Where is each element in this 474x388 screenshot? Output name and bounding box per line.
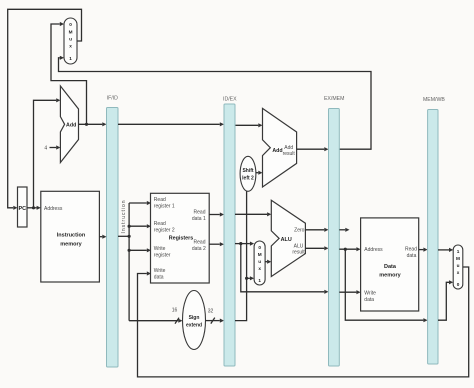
svg-text:Instruction: Instruction [121, 199, 127, 233]
instruction memory [41, 191, 100, 282]
svg-text:extend: extend [186, 323, 202, 329]
node: bus junction wr [128, 249, 131, 252]
ALU [271, 200, 305, 276]
svg-text:1: 1 [457, 249, 460, 254]
svg-text:Add: Add [272, 148, 282, 154]
wire: read data 2 from ID/EX to ALU mux input 0 [235, 242, 254, 246]
wire: sign extend from ID/EX up to shift left 2 [235, 191, 247, 320]
svg-text:memory: memory [379, 273, 401, 279]
wire: instruction memory output to IF/ID [99, 235, 106, 239]
svg-text:1: 1 [258, 278, 261, 283]
svg-text:result: result [283, 151, 296, 157]
wire: ALU result to WB mux input 0 [438, 280, 453, 320]
wire: read data to WB mux input 1 [438, 248, 453, 252]
wire: read data 2 to ID/EX [209, 242, 224, 246]
svg-text:memory: memory [60, 242, 82, 248]
svg-text:data: data [364, 297, 374, 303]
svg-text:result: result [292, 250, 305, 256]
wire: ALU zero to EX/MEM [305, 228, 328, 232]
wire: write-back to registers write data [138, 267, 469, 377]
node: instruction label [121, 199, 127, 233]
svg-text:EX/MEM: EX/MEM [324, 96, 344, 102]
svg-text:Add: Add [66, 122, 76, 128]
wire: read data to MEM/WB [419, 248, 428, 252]
svg-text:x: x [258, 266, 261, 271]
wire: PC+4 from IF/ID to ID/EX [118, 122, 224, 126]
svg-text:4: 4 [44, 146, 47, 152]
node: bus junction rr2 [128, 225, 131, 228]
svg-text:ALU: ALU [281, 237, 292, 243]
svg-text:Read: Read [194, 239, 206, 245]
mux M1 (PCSrc mux, top-left) [64, 18, 77, 64]
adder Add2 (branch target) [263, 108, 297, 187]
svg-text:data 1: data 1 [192, 216, 206, 222]
svg-text:16: 16 [172, 308, 178, 314]
data memory [361, 218, 419, 311]
svg-text:ALU: ALU [294, 243, 304, 249]
wire: ALU result to EX/MEM [305, 246, 328, 250]
svg-text:Address: Address [364, 247, 383, 253]
node: ALU result split [344, 248, 347, 251]
mux M3 (MemtoReg) [453, 245, 463, 289]
wire: read data 2 down to write data path [241, 244, 329, 294]
wire: PC+4 from ID/EX to branch adder [235, 123, 263, 127]
wire: mux output to PC (top-left feedback) [8, 9, 82, 210]
wire: ALU result bypass down to MEM/WB [345, 249, 427, 322]
svg-text:u: u [258, 259, 261, 264]
wire: branch target into mux input 1 [59, 56, 372, 150]
svg-text:Read: Read [154, 197, 166, 203]
mux M2 (ALUSrc) [254, 241, 265, 285]
wire: bus to write register [129, 248, 151, 252]
svg-text:x: x [457, 270, 460, 275]
svg-text:0: 0 [258, 245, 261, 250]
constant 4 input [44, 145, 60, 151]
svg-text:Write: Write [154, 246, 166, 252]
wire: read data 1 to ID/EX [209, 212, 224, 216]
svg-text:data 2: data 2 [192, 246, 206, 252]
sign extend unit [183, 291, 206, 350]
svg-text:1: 1 [69, 56, 72, 61]
svg-text:Read: Read [154, 221, 166, 227]
wire: bus to read register 2 [129, 224, 151, 228]
wire: write data into data memory [339, 290, 360, 294]
svg-text:register 1: register 1 [154, 203, 175, 209]
svg-text:Sign: Sign [189, 315, 200, 321]
svg-text:u: u [457, 263, 460, 268]
svg-text:M: M [456, 256, 460, 261]
svg-text:x: x [69, 44, 72, 49]
node: PC output junction [32, 206, 35, 209]
wire: Add1 output to IF/ID [79, 122, 107, 126]
wire: shift left 2 to branch adder [256, 171, 263, 175]
pipeline register MEM/WB [423, 97, 445, 364]
registers file [151, 193, 210, 283]
node: read data 2 split [239, 242, 242, 245]
PC register [18, 187, 28, 227]
svg-text:register: register [154, 252, 171, 258]
pipeline register EX/MEM [324, 96, 344, 366]
svg-text:left 2: left 2 [242, 176, 254, 182]
svg-text:Read: Read [405, 246, 417, 252]
wire: IF/ID to instruction bus [118, 235, 131, 238]
wire: ALUSrc mux output to ALU [265, 260, 271, 264]
svg-text:Read: Read [194, 209, 206, 215]
svg-text:Data: Data [384, 264, 397, 270]
svg-text:32: 32 [208, 309, 214, 315]
wire: PC to instruction memory address [27, 206, 41, 210]
wire: bus to read register 1 [129, 201, 151, 205]
wire: sign extend to ALU mux input 1 [247, 276, 255, 280]
wire: read data 1 from ID/EX to ALU [235, 212, 271, 216]
svg-text:ID/EX: ID/EX [223, 97, 237, 103]
svg-text:Zero: Zero [294, 227, 305, 233]
svg-text:data: data [407, 253, 417, 259]
svg-text:Write: Write [154, 268, 166, 274]
wire: ALU result to data memory address [339, 247, 360, 251]
adder Add1 (PC+4) [60, 86, 78, 163]
wire: instruction bus vertical [128, 203, 130, 321]
svg-text:u: u [69, 37, 72, 42]
node: PC+4 junction [85, 123, 88, 126]
svg-text:MEM/WB: MEM/WB [423, 97, 445, 103]
pipeline register IF/ID [107, 96, 119, 368]
svg-text:IF/ID: IF/ID [107, 96, 118, 102]
svg-text:Write: Write [364, 290, 376, 296]
svg-text:Instruction: Instruction [57, 233, 86, 239]
wire: sign extend output to ID/EX (32 bits) [206, 309, 224, 324]
shift left 2 unit [240, 156, 256, 191]
svg-text:M: M [69, 30, 73, 35]
svg-text:register 2: register 2 [154, 228, 175, 234]
svg-text:0: 0 [457, 282, 460, 287]
svg-text:Address: Address [44, 206, 63, 212]
svg-text:Registers: Registers [169, 236, 194, 242]
svg-text:0: 0 [69, 22, 72, 27]
wire: PC up to Add input [34, 98, 61, 208]
wire: PC+4 into mux input 0 [51, 22, 87, 124]
node: sign extend split [245, 277, 248, 280]
svg-text:PC: PC [18, 206, 26, 212]
svg-text:M: M [258, 252, 262, 257]
pipeline register ID/EX [223, 97, 237, 367]
wire: branch adder output to EX/MEM [297, 147, 329, 151]
svg-text:data: data [154, 274, 164, 280]
wire: zero out of EX/MEM (branch control) [339, 228, 349, 232]
svg-text:Add: Add [284, 145, 293, 151]
svg-text:Shift: Shift [242, 168, 253, 174]
wire: bus to sign extend (16 bits) [129, 308, 182, 324]
